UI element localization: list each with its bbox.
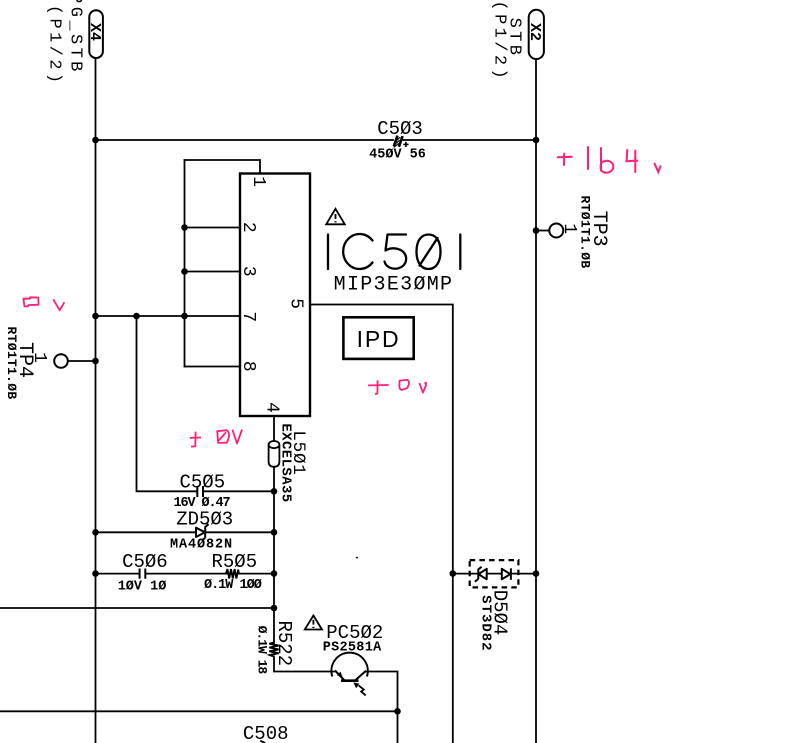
node y608 right: [271, 605, 278, 612]
wire C506 R505 line mid: [146, 573, 227, 575]
node pin2 bracket: [181, 224, 188, 231]
svg-text:1: 1: [248, 176, 268, 187]
svg-text:Ø.1W 18: Ø.1W 18: [254, 626, 269, 675]
warning triangle PC502: [305, 616, 322, 630]
wire TP4 stub: [68, 360, 96, 362]
svg-text:EXCELSA35: EXCELSA35: [278, 423, 294, 502]
node pin7 mid: [133, 313, 140, 320]
wire right rail from X2 to bottom: [535, 59, 537, 743]
svg-text:(P1/2): (P1/2): [45, 5, 64, 87]
handwritten 0v left: [23, 297, 64, 310]
wire D504 line: [453, 573, 536, 575]
capacitor C503: [394, 136, 409, 148]
node D504 right: [533, 570, 540, 577]
svg-text:1ØV 1Ø: 1ØV 1Ø: [118, 580, 167, 595]
svg-text:7: 7: [238, 311, 258, 322]
resistor R505: [226, 569, 239, 578]
svg-text:Ø.1W 1ØØ: Ø.1W 1ØØ: [204, 578, 262, 593]
svg-text:RTØ1T1.ØB: RTØ1T1.ØB: [577, 196, 592, 269]
wire pin3 stub: [185, 271, 241, 273]
capacitor C508 partial mark: [260, 741, 265, 743]
node TP3: [533, 227, 540, 234]
svg-text:45ØV 56: 45ØV 56: [369, 148, 426, 163]
test point TP4: [54, 354, 68, 368]
wire C506 R505 line left: [96, 573, 140, 575]
wire pin8 stub: [185, 366, 241, 368]
node C503 left: [92, 137, 99, 144]
wire bottom line y608: [0, 607, 274, 609]
handwritten +0V near C505: [190, 430, 242, 447]
diode D504 left (zener): [475, 567, 487, 582]
node TP4: [92, 358, 99, 365]
node C503 right: [533, 137, 540, 144]
svg-text:3: 3: [238, 266, 258, 277]
wire pin4 rail upper: [273, 416, 275, 441]
wire C503 horizontal right segment: [403, 139, 536, 141]
node R505 right: [271, 570, 278, 577]
handwritten +0v near IPD: [368, 380, 427, 395]
node IPD label box: [343, 317, 413, 359]
wire pin4 rail below L501: [273, 467, 275, 643]
wire pin1 top: [185, 160, 261, 174]
svg-text:2: 2: [238, 222, 258, 233]
capacitor C505: [197, 486, 203, 497]
wire IC left bracket rail: [184, 160, 186, 367]
test point TP3: [549, 224, 563, 238]
stray speck: [356, 557, 358, 559]
svg-text:C5Ø6: C5Ø6: [122, 551, 168, 573]
diode D504 dashed box: [470, 560, 519, 587]
svg-text:R5Ø5: R5Ø5: [211, 551, 257, 573]
inductor L501: [269, 441, 280, 467]
svg-text:4: 4: [262, 402, 282, 413]
wire C503 horizontal left segment: [96, 139, 394, 141]
node pin3 bracket: [181, 268, 188, 275]
node bottom junction: [394, 708, 401, 715]
svg-text:C508: C508: [243, 723, 289, 743]
emitter arrow PC502: [337, 672, 343, 678]
svg-text:(P1/2): (P1/2): [490, 0, 509, 82]
diode D504 right: [502, 568, 511, 580]
wire bottom line y711: [0, 710, 398, 712]
wire below R522 to transistor base: [274, 657, 334, 672]
node C506 left: [92, 570, 99, 577]
svg-text:C5Ø3: C5Ø3: [377, 118, 423, 140]
connector X4: [86, 10, 103, 58]
svg-text:R522: R522: [273, 620, 295, 666]
node D504 left: [450, 570, 457, 577]
wire TP3 stub: [536, 230, 549, 232]
wire pin2 stub: [185, 227, 241, 229]
connector X2: [526, 10, 544, 59]
wire C506 R505 line right: [239, 573, 275, 575]
wire pin7 line: [96, 315, 241, 317]
svg-text:PS2581A: PS2581A: [323, 641, 382, 656]
wire PC502 emitter to bottom junction: [366, 672, 398, 743]
svg-text:ZD5Ø3: ZD5Ø3: [176, 509, 233, 531]
wire pin5 to right vertical rail: [310, 305, 453, 743]
wire C505 to pin4 rail: [204, 490, 275, 492]
svg-text:IPD: IPD: [357, 326, 401, 352]
photo arrow PC502: [359, 685, 366, 695]
svg-text:C5Ø5: C5Ø5: [179, 472, 225, 494]
svg-text:8: 8: [238, 361, 258, 372]
node L501 bottom: [271, 488, 278, 495]
handwritten +164v: [558, 147, 661, 173]
svg-text:1: 1: [559, 223, 579, 234]
capacitor C506: [140, 569, 146, 579]
warning triangle IC501: [326, 209, 345, 225]
wire mid vertical to C505: [137, 316, 197, 491]
svg-text:MIP3E3ØMP: MIP3E3ØMP: [334, 274, 454, 297]
resistor R522: [269, 643, 278, 657]
svg-text:ST3D82: ST3D82: [478, 595, 494, 651]
svg-text:X2: X2: [526, 23, 543, 41]
op-amp U1: IC501 IPD box: [240, 174, 310, 417]
node ZD503 right: [271, 529, 278, 536]
transistor PC502: [331, 653, 367, 681]
svg-text:PG_STB: PG_STB: [65, 0, 84, 75]
node pin7 bracket: [181, 313, 188, 320]
label IC501 (stroke drawn): [328, 234, 460, 269]
node pin7 left: [92, 313, 99, 320]
wire left rail from X4 to bottom: [95, 58, 97, 743]
svg-text:X4: X4: [86, 23, 103, 41]
diode ZD503: [196, 524, 209, 540]
wire ZD503 line: [96, 531, 275, 533]
node ZD503 left: [92, 529, 99, 536]
svg-text:RTØ1T1.ØB: RTØ1T1.ØB: [4, 327, 19, 400]
svg-text:5: 5: [285, 298, 305, 309]
